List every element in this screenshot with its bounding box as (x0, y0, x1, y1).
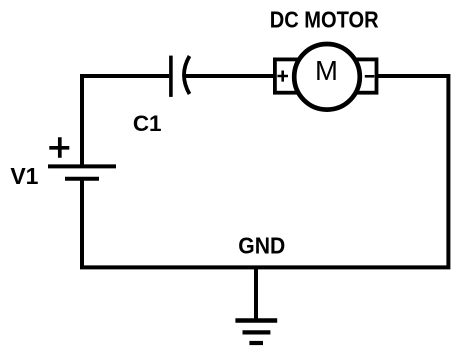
svg-text:V1: V1 (10, 163, 38, 189)
svg-text:M: M (315, 55, 338, 86)
svg-text:C1: C1 (133, 111, 162, 136)
svg-text:GND: GND (238, 232, 285, 258)
svg-text:DC MOTOR: DC MOTOR (270, 7, 379, 33)
